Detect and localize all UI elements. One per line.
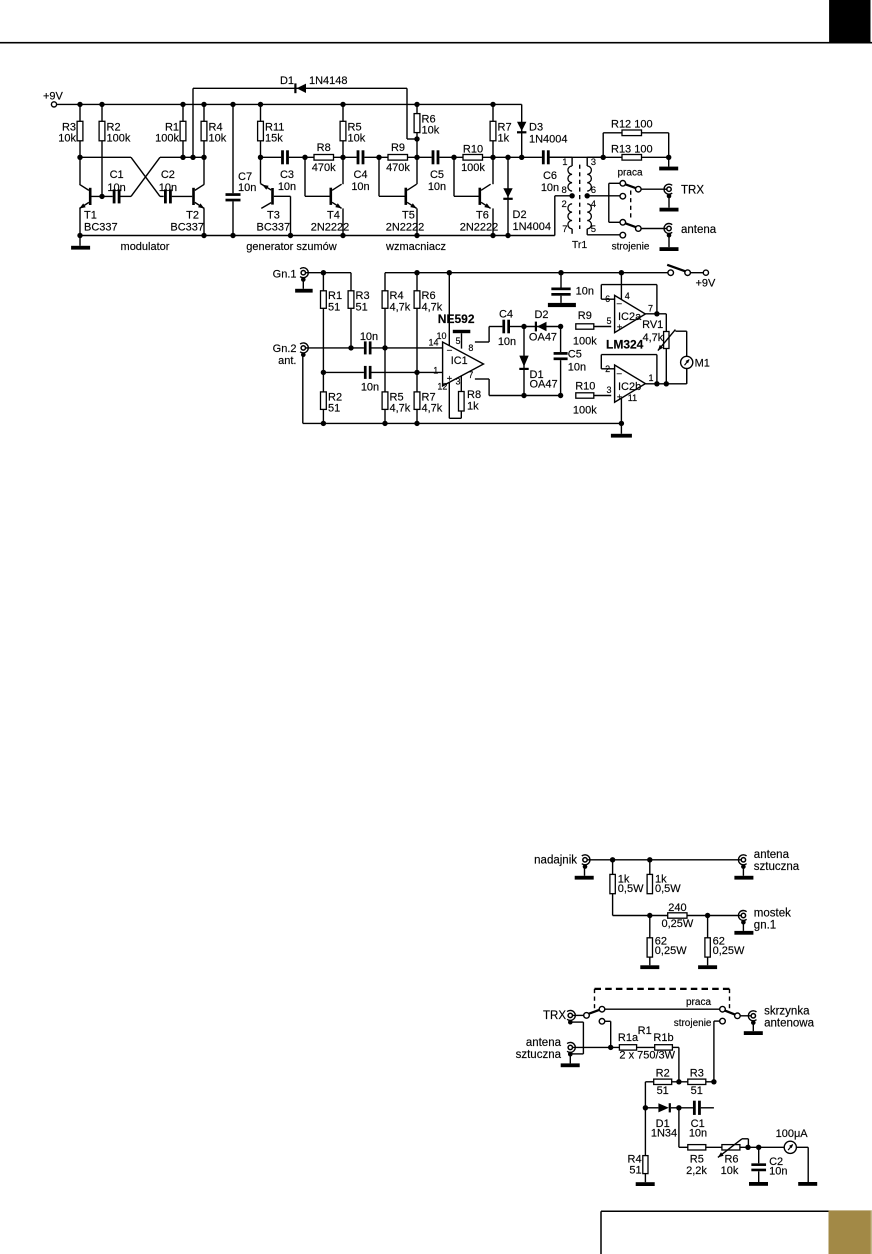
svg-text:praca: praca bbox=[617, 168, 642, 179]
svg-text:10n: 10n bbox=[159, 182, 177, 194]
svg-text:10n: 10n bbox=[498, 336, 516, 348]
svg-text:C1: C1 bbox=[110, 169, 124, 181]
svg-text:T3: T3 bbox=[267, 210, 280, 222]
svg-text:+: + bbox=[617, 322, 623, 333]
svg-text:BC337: BC337 bbox=[84, 222, 118, 234]
svg-text:BC337: BC337 bbox=[257, 222, 291, 234]
svg-text:5: 5 bbox=[456, 336, 461, 346]
svg-text:R1a: R1a bbox=[618, 1032, 639, 1044]
svg-text:ant.: ant. bbox=[278, 355, 296, 367]
svg-text:0,25W: 0,25W bbox=[662, 918, 694, 930]
svg-text:R1b: R1b bbox=[653, 1032, 673, 1044]
svg-text:R10: R10 bbox=[575, 381, 595, 393]
svg-text:1: 1 bbox=[562, 157, 567, 168]
svg-text:2N2222: 2N2222 bbox=[460, 222, 499, 234]
svg-text:3: 3 bbox=[606, 385, 611, 395]
svg-text:51: 51 bbox=[356, 301, 368, 313]
svg-text:+9V: +9V bbox=[696, 277, 717, 289]
svg-text:R5: R5 bbox=[690, 1153, 704, 1165]
svg-text:10n: 10n bbox=[351, 181, 369, 193]
svg-text:7: 7 bbox=[468, 370, 473, 380]
svg-text:OA47: OA47 bbox=[529, 332, 557, 344]
svg-text:8: 8 bbox=[468, 343, 473, 353]
svg-text:R1: R1 bbox=[328, 290, 342, 302]
svg-text:10n: 10n bbox=[107, 182, 125, 194]
svg-text:R1: R1 bbox=[638, 1025, 652, 1037]
svg-text:4: 4 bbox=[625, 291, 630, 301]
svg-text:10n: 10n bbox=[278, 181, 296, 193]
svg-text:5: 5 bbox=[591, 224, 596, 235]
svg-text:R12 100: R12 100 bbox=[611, 118, 653, 130]
svg-text:NE592: NE592 bbox=[438, 312, 475, 326]
svg-text:praca: praca bbox=[686, 997, 711, 1008]
svg-text:10k: 10k bbox=[58, 132, 76, 144]
svg-text:strojenie: strojenie bbox=[674, 1018, 712, 1029]
svg-text:Tr1: Tr1 bbox=[572, 239, 588, 251]
svg-text:10k: 10k bbox=[422, 124, 440, 136]
svg-text:R6: R6 bbox=[724, 1153, 738, 1165]
svg-text:14: 14 bbox=[428, 338, 438, 348]
svg-text:10n: 10n bbox=[541, 182, 559, 194]
svg-text:antena: antena bbox=[526, 1037, 562, 1049]
svg-text:100k: 100k bbox=[573, 404, 597, 416]
svg-text:4,7k: 4,7k bbox=[390, 403, 411, 415]
svg-text:–: – bbox=[617, 368, 622, 378]
svg-text:strojenie: strojenie bbox=[612, 242, 650, 253]
svg-text:10n: 10n bbox=[568, 361, 586, 373]
svg-text:R2: R2 bbox=[656, 1068, 670, 1080]
svg-text:2N2222: 2N2222 bbox=[386, 222, 425, 234]
svg-text:skrzynka: skrzynka bbox=[764, 1006, 810, 1018]
svg-text:C5: C5 bbox=[568, 348, 582, 360]
svg-text:IC1: IC1 bbox=[451, 355, 468, 367]
svg-text:–: – bbox=[617, 298, 622, 308]
svg-text:nadajnik: nadajnik bbox=[534, 854, 577, 866]
svg-text:T1: T1 bbox=[84, 210, 97, 222]
svg-text:1: 1 bbox=[649, 373, 654, 383]
svg-text:T2: T2 bbox=[186, 210, 199, 222]
svg-text:C4: C4 bbox=[353, 169, 367, 181]
svg-text:10n: 10n bbox=[689, 1128, 707, 1140]
svg-text:M1: M1 bbox=[695, 357, 710, 369]
svg-text:3: 3 bbox=[591, 157, 596, 168]
svg-text:51: 51 bbox=[328, 403, 340, 415]
svg-text:7: 7 bbox=[648, 304, 653, 314]
svg-text:1N4148: 1N4148 bbox=[309, 75, 348, 87]
svg-text:4,7k: 4,7k bbox=[643, 332, 664, 344]
svg-text:D2: D2 bbox=[513, 209, 527, 221]
svg-text:R3: R3 bbox=[356, 290, 370, 302]
svg-text:2: 2 bbox=[562, 199, 567, 210]
svg-text:15k: 15k bbox=[265, 132, 283, 144]
svg-text:51: 51 bbox=[657, 1085, 669, 1097]
svg-text:C4: C4 bbox=[499, 308, 513, 320]
svg-text:470k: 470k bbox=[312, 162, 336, 174]
svg-text:0,25W: 0,25W bbox=[655, 945, 687, 957]
svg-text:10n: 10n bbox=[769, 1166, 787, 1178]
svg-text:1k: 1k bbox=[467, 401, 479, 413]
svg-text:mostek: mostek bbox=[754, 907, 791, 919]
svg-text:wzmacniacz: wzmacniacz bbox=[385, 241, 446, 253]
svg-text:5: 5 bbox=[606, 316, 611, 326]
svg-text:D2: D2 bbox=[534, 309, 548, 321]
svg-text:4,7k: 4,7k bbox=[422, 403, 443, 415]
svg-text:RV1: RV1 bbox=[642, 319, 663, 331]
svg-text:0,5W: 0,5W bbox=[655, 883, 681, 895]
svg-text:10n: 10n bbox=[428, 181, 446, 193]
svg-text:0,5W: 0,5W bbox=[618, 883, 644, 895]
svg-text:51: 51 bbox=[691, 1085, 703, 1097]
svg-text:1N4004: 1N4004 bbox=[529, 134, 568, 146]
svg-text:gn.1: gn.1 bbox=[754, 920, 776, 932]
svg-text:R6: R6 bbox=[422, 290, 436, 302]
svg-text:sztuczna: sztuczna bbox=[754, 861, 800, 873]
svg-text:51: 51 bbox=[328, 301, 340, 313]
svg-text:Gn.2: Gn.2 bbox=[273, 343, 297, 355]
svg-text:LM324: LM324 bbox=[606, 337, 644, 351]
svg-text:6: 6 bbox=[591, 185, 596, 196]
svg-text:1k: 1k bbox=[498, 132, 510, 144]
svg-text:+9V: +9V bbox=[43, 91, 64, 103]
svg-text:R13 100: R13 100 bbox=[611, 144, 653, 156]
svg-text:10k: 10k bbox=[348, 132, 366, 144]
svg-text:R9: R9 bbox=[578, 310, 592, 322]
svg-text:100k: 100k bbox=[107, 132, 131, 144]
svg-text:–: – bbox=[447, 344, 452, 354]
svg-text:10n: 10n bbox=[576, 285, 594, 297]
svg-text:1N34: 1N34 bbox=[651, 1128, 677, 1140]
svg-text:R10: R10 bbox=[463, 143, 483, 155]
svg-text:7: 7 bbox=[562, 224, 567, 235]
svg-text:4,7k: 4,7k bbox=[390, 301, 411, 313]
svg-text:R5: R5 bbox=[390, 391, 404, 403]
svg-text:D1: D1 bbox=[280, 75, 294, 87]
svg-text:antenowa: antenowa bbox=[764, 1018, 814, 1030]
svg-text:0,25W: 0,25W bbox=[713, 945, 745, 957]
svg-text:10k: 10k bbox=[209, 132, 227, 144]
svg-text:100k: 100k bbox=[573, 335, 597, 347]
svg-text:10n: 10n bbox=[361, 382, 379, 394]
svg-text:2N2222: 2N2222 bbox=[311, 222, 350, 234]
svg-text:3: 3 bbox=[456, 377, 461, 387]
svg-text:100μA: 100μA bbox=[776, 1128, 809, 1140]
svg-text:T6: T6 bbox=[476, 210, 489, 222]
svg-text:R7: R7 bbox=[422, 391, 436, 403]
svg-text:R9: R9 bbox=[391, 142, 405, 154]
svg-text:OA47: OA47 bbox=[530, 378, 558, 390]
svg-text:1N4004: 1N4004 bbox=[513, 221, 552, 233]
svg-text:10n: 10n bbox=[360, 331, 378, 343]
svg-text:TRX: TRX bbox=[543, 1010, 566, 1022]
svg-text:100k: 100k bbox=[461, 162, 485, 174]
svg-text:100k: 100k bbox=[155, 132, 179, 144]
svg-text:antena: antena bbox=[754, 849, 790, 861]
svg-text:T5: T5 bbox=[402, 210, 415, 222]
svg-text:8: 8 bbox=[562, 185, 567, 196]
svg-text:1: 1 bbox=[433, 365, 438, 375]
svg-text:240: 240 bbox=[668, 902, 686, 914]
svg-text:modulator: modulator bbox=[121, 241, 170, 253]
svg-text:10n: 10n bbox=[238, 182, 256, 194]
svg-text:2,2k: 2,2k bbox=[686, 1165, 707, 1177]
svg-text:sztuczna: sztuczna bbox=[516, 1049, 562, 1061]
svg-text:C6: C6 bbox=[543, 170, 557, 182]
svg-text:C3: C3 bbox=[280, 169, 294, 181]
svg-text:antena: antena bbox=[681, 224, 717, 236]
svg-text:11: 11 bbox=[628, 393, 637, 403]
svg-text:TRX: TRX bbox=[681, 184, 704, 196]
svg-text:D3: D3 bbox=[529, 122, 543, 134]
svg-text:2 x 750/3W: 2 x 750/3W bbox=[619, 1049, 675, 1061]
svg-text:R4: R4 bbox=[390, 290, 404, 302]
svg-text:generator szumów: generator szumów bbox=[246, 241, 337, 253]
svg-text:R2: R2 bbox=[328, 391, 342, 403]
svg-text:C2: C2 bbox=[161, 169, 175, 181]
svg-text:T4: T4 bbox=[327, 210, 340, 222]
svg-text:C5: C5 bbox=[430, 169, 444, 181]
svg-text:R3: R3 bbox=[690, 1068, 704, 1080]
svg-text:R8: R8 bbox=[317, 142, 331, 154]
svg-text:R8: R8 bbox=[467, 389, 481, 401]
svg-text:Gn.1: Gn.1 bbox=[273, 268, 297, 280]
svg-text:BC337: BC337 bbox=[170, 222, 204, 234]
svg-text:470k: 470k bbox=[386, 162, 410, 174]
svg-text:51: 51 bbox=[629, 1164, 641, 1176]
svg-text:10k: 10k bbox=[721, 1165, 739, 1177]
